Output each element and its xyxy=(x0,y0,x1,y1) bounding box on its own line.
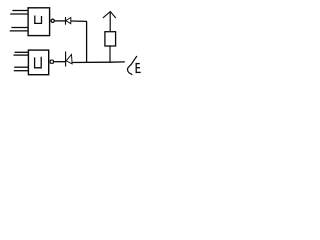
gate U2 label U xyxy=(35,57,42,68)
transducer E vertical xyxy=(135,63,137,73)
diode VD1 triangle xyxy=(66,18,71,24)
wire bubble2 to diode VD2 xyxy=(54,61,66,63)
transducer arc xyxy=(127,64,132,75)
wire corner down to bus xyxy=(86,21,88,62)
supply arrow head xyxy=(103,12,116,19)
transducer E middle bar xyxy=(136,67,140,69)
diode VD2 cathode bar xyxy=(65,51,67,66)
transducer diagonal stroke xyxy=(131,56,137,65)
bus wire from VD2 to right end xyxy=(72,61,125,64)
wire VD1 to corner xyxy=(71,20,87,22)
gate U2 input pin 2 xyxy=(14,54,29,56)
gate U1 body xyxy=(28,8,49,36)
gate U2 output inversion bubble xyxy=(50,60,53,63)
transducer E top bar xyxy=(136,63,140,65)
resistor R body xyxy=(105,32,116,46)
diode VD1 cathode bar xyxy=(65,17,67,25)
gate U2 input pin 3 xyxy=(14,66,28,68)
gate U2 body xyxy=(28,50,48,75)
gate U1 input pin 4 xyxy=(10,30,28,32)
gate U1 output inversion bubble xyxy=(51,19,54,22)
gate U1 label U xyxy=(35,16,42,24)
diode VD2 triangle xyxy=(66,55,72,64)
resistor bottom lead xyxy=(109,46,111,62)
gate U1 input pin 2 xyxy=(10,13,28,15)
gate U2 input pin 1 xyxy=(15,51,29,53)
resistor top lead xyxy=(109,12,111,32)
gate U1 input pin 1 xyxy=(12,10,28,12)
gate U2 input pin 4 xyxy=(14,70,29,72)
wire bubble1 to diode VD1 xyxy=(55,20,66,22)
gate U1 input pin 3 xyxy=(11,27,28,29)
transducer E bottom bar xyxy=(136,71,141,73)
